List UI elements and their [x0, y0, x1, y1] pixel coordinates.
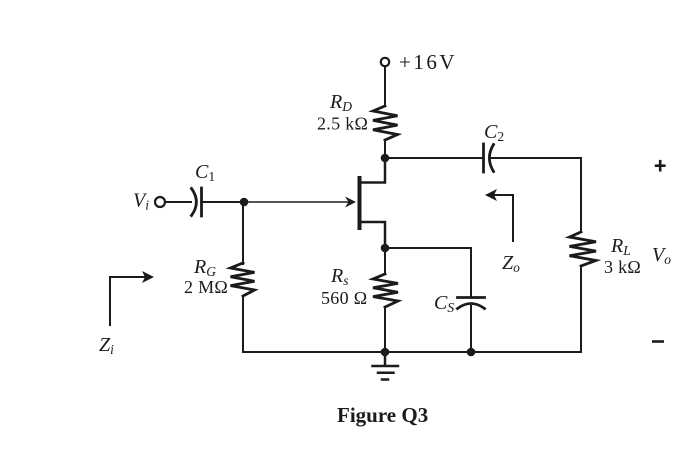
svg-text:RL: RL	[610, 235, 631, 258]
resistor RD 2.5k zigzag	[373, 106, 398, 140]
svg-text:C2: C2	[484, 121, 504, 144]
resistor RS 560 zigzag	[373, 274, 398, 307]
svg-text:Vo: Vo	[652, 244, 671, 267]
input terminal Vi	[155, 197, 165, 207]
resistor RG 2M zigzag	[231, 263, 255, 296]
plus sign	[655, 160, 666, 172]
wire supply to RD	[384, 67, 386, 107]
svg-text:Vi: Vi	[133, 190, 149, 213]
wire RS to bottom rail	[384, 307, 386, 352]
wire drain node to C2	[385, 157, 482, 159]
Zi measurement arrow	[110, 277, 148, 325]
svg-text:+16V: +16V	[399, 50, 457, 74]
node source junction	[381, 244, 390, 253]
wire RG to bottom rail	[242, 296, 244, 352]
transistor Q1 JFET gate bar	[358, 176, 362, 230]
svg-text:2.5 kΩ: 2.5 kΩ	[317, 114, 368, 134]
Zo measurement arrow	[491, 195, 513, 241]
svg-text:C1: C1	[195, 161, 215, 184]
wire bottom rail	[243, 351, 581, 353]
wire gate node to JFET gate with arrow	[244, 201, 350, 203]
node bottom-left junction	[381, 348, 390, 357]
minus sign	[652, 340, 664, 343]
wire CS to bottom rail	[470, 306, 472, 352]
svg-text:560 Ω: 560 Ω	[321, 288, 367, 308]
ground	[373, 352, 399, 380]
capacitor CS	[458, 296, 485, 299]
wire right rail top	[580, 158, 582, 232]
wire source node to CS branch	[385, 248, 471, 296]
capacitor C2	[482, 144, 485, 172]
capacitor C1	[192, 189, 197, 216]
node bottom CS junction	[467, 348, 476, 357]
svg-text:Rs: Rs	[330, 265, 348, 288]
wire RG branch down	[242, 202, 244, 264]
svg-text:Zi: Zi	[99, 334, 114, 357]
wire C2 to right rail	[492, 157, 582, 159]
resistor RL 3k zigzag	[570, 232, 597, 266]
wire Vi to C1	[166, 201, 192, 203]
svg-text:Figure Q3: Figure Q3	[337, 403, 428, 427]
svg-text:RD: RD	[329, 91, 352, 114]
node drain junction	[381, 154, 390, 163]
svg-text:Zo: Zo	[502, 252, 520, 275]
svg-text:CS: CS	[434, 292, 454, 315]
wire right rail bottom	[580, 266, 582, 352]
wire C1 to gate node	[202, 201, 245, 203]
JFET source lead	[362, 222, 386, 244]
JFET drain lead	[362, 162, 386, 183]
svg-text:3 kΩ: 3 kΩ	[604, 257, 641, 277]
+16V supply terminal	[381, 58, 389, 66]
wire RD to drain node	[384, 141, 386, 159]
wire source node to RS	[384, 248, 386, 274]
svg-text:2 MΩ: 2 MΩ	[184, 277, 228, 297]
svg-text:RG: RG	[193, 256, 216, 279]
node gate junction	[240, 198, 249, 207]
